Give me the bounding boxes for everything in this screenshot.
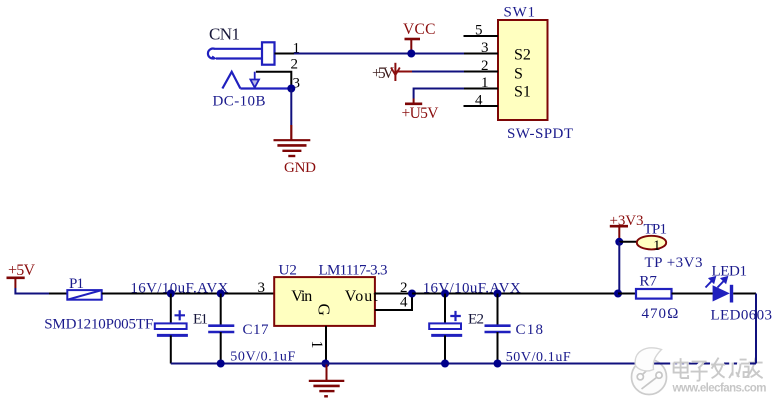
wire junction to TP1 xyxy=(619,241,636,243)
wire LED1 cathode to right rail xyxy=(733,293,756,295)
svg-text:C17: C17 xyxy=(243,322,270,338)
connector CN1 barrel xyxy=(208,42,275,64)
CN1 pin 1 stub xyxy=(275,53,295,55)
watermark logo xyxy=(632,360,667,395)
svg-text:SMD1210P005TF: SMD1210P005TF xyxy=(44,317,153,333)
wire CN1 pin1 to SW1 pin3 xyxy=(294,53,464,55)
svg-text:Vin: Vin xyxy=(291,288,312,305)
CN1 switch arm xyxy=(222,72,291,89)
test point TP1 xyxy=(637,236,666,250)
svg-text:E2: E2 xyxy=(468,312,484,328)
svg-text:www.elecfans.com: www.elecfans.com xyxy=(672,383,767,395)
capacitor C17 xyxy=(208,294,234,364)
svg-text:4: 4 xyxy=(475,93,483,109)
wire +3V3 junction down to rail xyxy=(618,242,620,294)
junction node U2 output xyxy=(408,290,416,298)
svg-text:Vout: Vout xyxy=(345,288,379,305)
junction node E2 top xyxy=(441,290,449,298)
svg-text:SW1: SW1 xyxy=(504,5,536,21)
junction node VCC xyxy=(407,50,415,58)
svg-text:1: 1 xyxy=(481,75,489,91)
SW1 pin 4 xyxy=(464,93,499,109)
wire +5V to fuse P1 xyxy=(15,288,49,294)
svg-text:C18: C18 xyxy=(516,322,544,338)
svg-text:SW-SPDT: SW-SPDT xyxy=(507,126,573,142)
watermark logo leaf xyxy=(635,348,661,371)
svg-text:GND: GND xyxy=(284,160,316,176)
U2 pin 1 stub xyxy=(325,326,327,364)
LED LED1 xyxy=(706,277,734,302)
wire fuse to U2 pin3 xyxy=(120,293,256,295)
U2 pin 2 stub xyxy=(375,293,393,295)
svg-text:LED0603: LED0603 xyxy=(711,308,773,324)
svg-text:G: G xyxy=(314,303,333,315)
svg-text:CN1: CN1 xyxy=(209,25,240,44)
svg-text:DC-10B: DC-10B xyxy=(213,94,266,110)
SW1 pin 5 xyxy=(464,23,499,39)
wire CN1 to ground xyxy=(290,89,292,126)
svg-text:1: 1 xyxy=(308,341,325,349)
svg-text:S2: S2 xyxy=(514,47,531,64)
svg-text:P1: P1 xyxy=(69,276,84,292)
svg-text:+5V: +5V xyxy=(8,262,35,279)
junction node CN1 pin2/3 xyxy=(287,85,295,93)
svg-text:TP1: TP1 xyxy=(644,222,668,238)
junction node E2 bottom xyxy=(441,360,449,368)
junction node R7 input xyxy=(614,290,622,298)
svg-text:470Ω: 470Ω xyxy=(642,306,679,322)
svg-text:S: S xyxy=(514,66,523,83)
capacitor E2 xyxy=(429,294,462,364)
fuse P1 xyxy=(67,290,101,300)
SW1 pin 2 xyxy=(464,58,498,74)
wire U2 output to R7 xyxy=(412,293,618,295)
junction node C17 top xyxy=(217,290,225,298)
junction node +3V3 / TP1 xyxy=(615,238,623,246)
svg-text:LED1: LED1 xyxy=(712,264,748,280)
switch SW1 body xyxy=(498,20,548,120)
junction node U2 pin1 / bottom rail xyxy=(322,360,330,368)
U2 pin 3 stub xyxy=(256,293,274,295)
power +U5V xyxy=(402,99,440,123)
junction node C18 top xyxy=(494,290,502,298)
svg-text:VCC: VCC xyxy=(403,21,436,38)
svg-text:U2: U2 xyxy=(279,263,297,279)
svg-text:2: 2 xyxy=(481,58,489,74)
wire right rail overdraw xyxy=(755,340,757,364)
svg-text:2: 2 xyxy=(291,57,299,73)
U2 pin 4 stub xyxy=(375,309,393,311)
fuse P1 right pin xyxy=(102,293,120,295)
power +5V (bottom left) xyxy=(7,262,36,288)
wire SW1 pin1 to +U5V xyxy=(414,89,464,99)
svg-text:50V/0.1uF: 50V/0.1uF xyxy=(506,350,571,365)
wire +5V to SW1 pin2 xyxy=(412,71,464,73)
resistor R7 left pin xyxy=(618,293,636,295)
wire U2 pin2 junction xyxy=(393,293,412,295)
capacitor E1 xyxy=(155,294,188,364)
svg-text:R7: R7 xyxy=(639,274,657,290)
CN1 pin 2 contact xyxy=(256,72,291,89)
svg-text:4: 4 xyxy=(400,295,408,311)
bottom rail wire xyxy=(171,363,756,365)
svg-text:5: 5 xyxy=(475,23,483,39)
svg-text:E1: E1 xyxy=(193,312,208,328)
svg-text:S1: S1 xyxy=(514,84,531,101)
capacitor C18 xyxy=(485,294,511,364)
wire bottom rail over logo xyxy=(626,363,670,365)
svg-text:1: 1 xyxy=(653,238,661,254)
junction node E1 top xyxy=(167,290,175,298)
watermark chinese text (embossed stroke approximation) xyxy=(673,357,763,381)
SW1 pin 1 xyxy=(464,75,498,91)
junction node C18 bottom xyxy=(494,360,502,368)
svg-text:1: 1 xyxy=(293,41,301,57)
wire U2 pin4 to pin2 junction xyxy=(393,294,412,311)
SW1 pin 3 xyxy=(464,40,498,56)
svg-text:16V/10uF.AVX: 16V/10uF.AVX xyxy=(423,281,521,297)
svg-text:+U5V: +U5V xyxy=(402,105,440,122)
fuse P1 left pin xyxy=(49,293,67,295)
regulator U2 body xyxy=(274,277,375,326)
svg-text:TP +3V3: TP +3V3 xyxy=(645,255,703,271)
svg-text:50V/0.1uF: 50V/0.1uF xyxy=(230,350,295,365)
CN1 arrow xyxy=(250,72,259,88)
power +5V arrow (top) xyxy=(372,63,412,82)
ground symbol under U2 xyxy=(309,364,345,397)
power VCC symbol xyxy=(403,21,436,54)
svg-text:LM1117-3.3: LM1117-3.3 xyxy=(319,263,388,279)
power +3V3 xyxy=(610,213,644,242)
junction node C17 bottom xyxy=(217,360,225,368)
ground GND symbol xyxy=(274,125,311,156)
svg-text:3: 3 xyxy=(481,40,489,56)
svg-text:3: 3 xyxy=(258,280,266,296)
wire R7 to LED1 xyxy=(672,293,714,295)
resistor R7 xyxy=(636,289,672,299)
